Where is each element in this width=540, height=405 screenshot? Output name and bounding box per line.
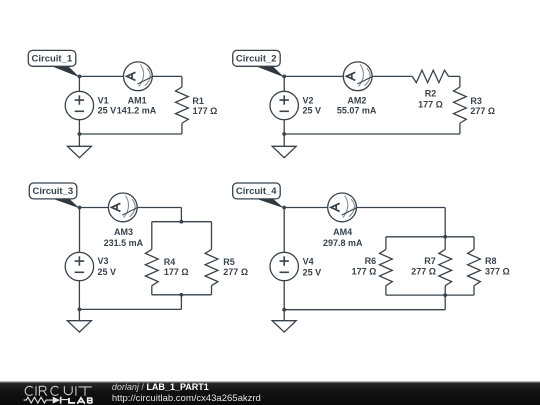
wire	[211, 222, 213, 250]
resistor R3	[454, 87, 467, 123]
ammeter AM2	[343, 62, 373, 91]
ammeter AM1	[123, 62, 153, 91]
svg-text:R3: R3	[470, 96, 482, 106]
voltage source V3	[65, 252, 93, 280]
node junction dot	[78, 75, 82, 79]
svg-text:277 Ω: 277 Ω	[470, 106, 495, 116]
footer bar	[0, 382, 540, 405]
wire	[78, 76, 80, 91]
resistor R1	[176, 87, 189, 123]
resistor R8	[468, 249, 481, 285]
svg-text:V3: V3	[98, 256, 109, 266]
node junction dot	[78, 308, 82, 312]
wire	[473, 237, 475, 250]
svg-text:141.2 mA: 141.2 mA	[117, 106, 157, 116]
svg-text:25 V: 25 V	[303, 267, 322, 277]
wire	[459, 123, 461, 134]
voltage source V4	[270, 252, 298, 280]
wire	[459, 76, 461, 87]
svg-text:Circuit_3: Circuit_3	[33, 186, 74, 197]
wire	[211, 286, 213, 295]
resistor R5	[205, 249, 218, 285]
node label Circuit_4	[233, 183, 285, 208]
wire	[151, 286, 153, 295]
node label Circuit_2	[233, 50, 285, 77]
svg-text:http://circuitlab.com/cx43a265: http://circuitlab.com/cx43a265akzrd	[112, 393, 261, 404]
svg-text:177 Ω: 177 Ω	[193, 106, 218, 116]
wire	[80, 75, 182, 77]
svg-text:AM2: AM2	[347, 96, 366, 106]
node junction dot	[443, 293, 447, 297]
wire	[473, 286, 475, 295]
svg-text:dorlanj / LAB_1_PART1: dorlanj / LAB_1_PART1	[112, 382, 209, 392]
wire	[284, 133, 460, 135]
node label Circuit_1	[28, 50, 79, 77]
wire	[283, 281, 285, 321]
svg-text:177 Ω: 177 Ω	[418, 99, 443, 109]
wire	[181, 76, 183, 87]
svg-text:Circuit_2: Circuit_2	[236, 53, 277, 64]
svg-text:277 Ω: 277 Ω	[223, 267, 248, 277]
svg-text:R5: R5	[223, 257, 235, 267]
wire	[78, 281, 80, 321]
node junction dot	[443, 235, 447, 239]
ammeter AM3	[108, 193, 138, 222]
wire	[152, 294, 212, 296]
wire	[444, 295, 446, 310]
ground	[272, 321, 296, 332]
wire	[283, 208, 285, 253]
voltage source V1	[65, 91, 93, 119]
wire	[78, 120, 80, 147]
node junction dot	[282, 206, 286, 210]
svg-text:231.5 mA: 231.5 mA	[104, 238, 144, 248]
node junction dot	[180, 220, 184, 224]
wire	[444, 237, 446, 250]
svg-text:V1: V1	[98, 95, 109, 105]
wire	[152, 221, 212, 223]
svg-text:R8: R8	[485, 256, 497, 266]
node junction dot	[78, 132, 82, 136]
svg-text:Circuit_4: Circuit_4	[236, 186, 277, 197]
svg-text:277 Ω: 277 Ω	[411, 267, 436, 277]
wire	[80, 207, 182, 209]
wire	[386, 294, 474, 296]
resistor R4	[145, 249, 158, 285]
wire	[449, 75, 460, 77]
ground	[67, 146, 91, 157]
svg-text:V4: V4	[303, 256, 314, 266]
wire	[444, 286, 446, 295]
node junction dot	[78, 206, 82, 210]
wire	[284, 207, 445, 209]
wire	[151, 222, 153, 250]
svg-text:R7: R7	[424, 256, 436, 266]
svg-text:177 Ω: 177 Ω	[164, 267, 189, 277]
wire	[79, 208, 81, 253]
voltage source V2	[270, 91, 298, 119]
wire	[79, 308, 181, 310]
node junction dot	[282, 132, 286, 136]
svg-text:25 V: 25 V	[303, 105, 322, 115]
svg-text:297.8 mA: 297.8 mA	[323, 238, 363, 248]
node label Circuit_3	[29, 183, 79, 208]
ground	[272, 146, 296, 157]
resistor R6	[380, 249, 393, 285]
wire	[283, 76, 285, 91]
svg-text:25 V: 25 V	[98, 267, 117, 277]
node junction dot	[180, 293, 184, 297]
resistor R2	[412, 70, 448, 82]
svg-text:V2: V2	[303, 95, 314, 105]
svg-text:55.07 mA: 55.07 mA	[337, 106, 377, 116]
svg-text:R4: R4	[164, 257, 176, 267]
wire	[283, 120, 285, 147]
wire	[181, 123, 183, 134]
svg-text:377 Ω: 377 Ω	[485, 267, 510, 277]
footer title text	[112, 382, 261, 404]
wire	[284, 75, 412, 77]
wire	[180, 295, 182, 310]
ammeter AM4	[328, 193, 358, 222]
svg-text:AM3: AM3	[114, 227, 133, 237]
svg-text:AM1: AM1	[128, 96, 147, 106]
svg-text:R6: R6	[365, 256, 377, 266]
wire	[385, 237, 387, 250]
ground	[67, 321, 91, 332]
svg-text:25 V: 25 V	[98, 105, 117, 115]
CircuitLab logo	[24, 386, 93, 404]
svg-text:177 Ω: 177 Ω	[352, 267, 377, 277]
wire	[444, 208, 446, 237]
svg-text:AM4: AM4	[333, 227, 352, 237]
svg-text:R2: R2	[425, 89, 437, 99]
resistor R7	[439, 249, 452, 285]
svg-text:R1: R1	[192, 96, 204, 106]
wire	[385, 286, 387, 295]
svg-text:Circuit_1: Circuit_1	[32, 53, 73, 64]
wire	[180, 208, 182, 222]
wire	[79, 133, 181, 135]
wire	[284, 309, 445, 311]
node junction dot	[282, 75, 286, 79]
wire	[386, 236, 474, 238]
node junction dot	[282, 308, 286, 312]
